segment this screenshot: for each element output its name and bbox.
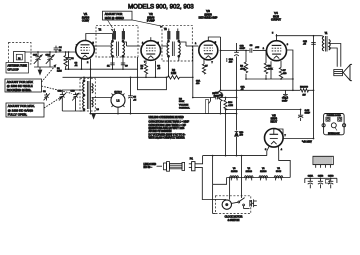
clock capacitor and outlet: [249, 200, 251, 207]
heater bus: [227, 177, 291, 179]
svg-text:.01: .01: [75, 65, 79, 67]
osc coil terminals: [83, 80, 85, 82]
svg-text:C10: C10: [215, 92, 220, 94]
svg-text:RECT: RECT: [271, 120, 278, 123]
svg-text:400: 400: [229, 62, 233, 64]
svg-text:C2: C2: [71, 58, 75, 60]
resistor R8: [300, 89, 308, 92]
svg-text:C15C: C15C: [328, 176, 334, 178]
oscillator coil dashed box: [80, 79, 95, 111]
wire: V5 pin3 drop: [266, 151, 268, 156]
T3 secondary coil: [179, 42, 181, 56]
misc small labels: [33, 54, 245, 111]
svg-text:T2: T2: [99, 30, 102, 32]
svg-text:30: 30: [59, 50, 62, 52]
T3 terminal circles: [168, 40, 170, 42]
svg-text:68: 68: [141, 68, 144, 70]
wire: B+ line y=90.3: [221, 89, 301, 91]
wire: clock feeds: [229, 178, 231, 200]
wire: T2 secondary to V2 grid: [127, 45, 141, 47]
T3 primary coil: [167, 42, 169, 56]
svg-text:T3: T3: [164, 29, 167, 31]
svg-text:C1C: C1C: [46, 55, 51, 57]
wire: osc box to L2: [92, 97, 112, 99]
wire: vertical x=236.5: [236, 43, 238, 52]
svg-text:R14: R14: [228, 102, 233, 104]
svg-text:WITH 20,000 OHM/VOLT METER: WITH 20,000 OHM/VOLT METER: [149, 137, 185, 140]
wire: plate load vertical x=221: [220, 37, 222, 91]
svg-text:R2: R2: [172, 70, 176, 72]
svg-text:C15B: C15B: [318, 176, 324, 178]
svg-text:500K: 500K: [179, 101, 185, 103]
label R5 1MEG: [219, 91, 222, 102]
oscillator gang C1D: [72, 93, 79, 112]
T3 core: [171, 42, 173, 57]
capacitor C8 coupling: [249, 48, 251, 53]
svg-text:1W: 1W: [302, 94, 305, 96]
svg-text:P1: P1: [190, 158, 194, 161]
svg-text:CONV: CONV: [82, 19, 89, 22]
T3 trimmer caps: [167, 31, 170, 40]
tube V4 output: [263, 33, 289, 61]
wire: loop antenna to V1 grid: [25, 51, 76, 53]
clock motor dashed box: [215, 196, 250, 214]
filter caps C7A-B: [284, 90, 286, 94]
IF transformer T2 dashed box: [96, 25, 138, 57]
svg-text:1: 1: [263, 48, 265, 50]
svg-text:C1B: C1B: [58, 90, 63, 92]
wire: volume to V4 grid y=97.5: [193, 97, 216, 99]
T2 primary coil: [111, 42, 113, 56]
svg-text:OF LOOP: OF LOOP: [8, 69, 19, 72]
svg-text:R6: R6: [240, 66, 244, 68]
cap under V2: [155, 61, 157, 78]
svg-text:C9B: C9B: [240, 46, 245, 48]
svg-text:C6A: C6A: [241, 85, 246, 88]
svg-text:DET-AUDIO AMP: DET-AUDIO AMP: [199, 16, 218, 19]
svg-text:150: 150: [283, 73, 287, 75]
adjust 455KC callout box: [103, 11, 133, 20]
svg-text:IF AMP: IF AMP: [147, 19, 155, 22]
svg-text:MAX @ 455KC: MAX @ 455KC: [105, 16, 124, 20]
trimmer C1E: [43, 91, 50, 101]
wire: V4 pin stub: [270, 61, 272, 79]
svg-text:1: 1: [195, 43, 197, 45]
svg-text:CONTROL: CONTROL: [179, 107, 190, 109]
wire: T2 bottom drop x=137.5: [137, 57, 139, 77]
svg-text:C9A: C9A: [229, 58, 234, 61]
wire: V3 plate to R5 rail: [208, 37, 220, 41]
wire: V1 cathode vertical x=90: [90, 59, 92, 114]
svg-text:C7: C7: [205, 65, 209, 67]
svg-text:7: 7: [285, 135, 287, 137]
wire: heater return: [213, 178, 227, 185]
tuning gang C1A: [34, 52, 43, 67]
capacitor C4: [55, 50, 57, 52]
label antenna tune of loop: [6, 63, 29, 74]
T2 secondary coil: [123, 42, 125, 56]
loop antenna L1: [14, 52, 26, 63]
svg-text:C1A: C1A: [33, 54, 38, 57]
svg-text:5: 5: [215, 42, 217, 44]
IF transformer T3 dashed box: [162, 25, 192, 61]
svg-text:V2: V2: [248, 168, 251, 170]
svg-text:C?: C?: [125, 65, 129, 67]
dashed callout long: [42, 86, 73, 94]
wire: gang top to osc coil: [62, 90, 84, 93]
svg-text:L2: L2: [117, 98, 120, 102]
tube socket layout detail: [322, 114, 346, 135]
svg-text:V4: V4: [277, 168, 280, 170]
electrolytic caps C15A B C: [305, 175, 337, 189]
wire: V3 grid return x=192.8: [192, 46, 194, 98]
heater V4: [274, 176, 283, 178]
heater V1: [259, 176, 268, 178]
svg-text:*+B 140V: *+B 140V: [302, 142, 312, 144]
capacitor C10: [215, 96, 217, 100]
resistor R6 470K: [245, 51, 247, 63]
svg-text:C15A: C15A: [308, 175, 314, 178]
svg-text:MODELS 900, 902, 903: MODELS 900, 902, 903: [128, 4, 194, 11]
svg-text:12AU6: 12AU6: [231, 170, 238, 173]
svg-text:V1: V1: [262, 168, 265, 170]
T2 terminal circles: [112, 40, 114, 42]
clock motor: [222, 200, 231, 209]
ground arrow on bus: [91, 114, 96, 120]
resistor R14: [224, 100, 227, 110]
oscillator trimmer C1B: [59, 93, 66, 112]
svg-text:R8 1000: R8 1000: [300, 87, 309, 89]
resistor R9 470K: [265, 51, 267, 64]
svg-text:VOLUME: VOLUME: [179, 104, 189, 106]
T3 bottom stubs: [168, 56, 170, 78]
svg-text:2.2M: 2.2M: [57, 71, 62, 73]
svg-text:5: 5: [93, 43, 95, 45]
wire: plug to AC line: [195, 156, 203, 164]
svg-text:T1: T1: [325, 32, 328, 35]
wire: V4 screen drop x=292.9: [287, 50, 293, 90]
svg-text:5: 5: [272, 33, 274, 35]
tube V2 IF amp: [141, 37, 161, 63]
wire: V5 pin4 to heater bus: [279, 151, 291, 178]
svg-text:12 TO 8: 12 TO 8: [114, 92, 122, 94]
wire: B plus vertical x=313.5: [313, 36, 315, 139]
capacitor C-15: [300, 110, 302, 115]
loop antenna dashed enclosure: [9, 43, 32, 65]
output transformer T1: [322, 32, 331, 52]
label adjust 1500KC box: [5, 79, 42, 92]
speaker: [334, 64, 352, 81]
wire: C8 coupling line to V4 grid: [221, 50, 250, 52]
heater V3: [230, 176, 239, 178]
svg-text:ROCKING GANG.: ROCKING GANG.: [7, 88, 32, 92]
svg-text:2.2M: 2.2M: [171, 73, 176, 75]
capacitor C9B: [234, 51, 239, 53]
ground arrow: [39, 67, 41, 70]
svg-text:R10: R10: [239, 132, 244, 134]
capacitor C2: [68, 52, 70, 58]
notes text block: [149, 116, 190, 139]
svg-text:12BA6: 12BA6: [246, 170, 253, 173]
svg-text:C5: C5: [133, 97, 137, 99]
capacitor C9A: [226, 58, 228, 62]
resistor R2: [168, 76, 180, 80]
svg-text:1MEG: 1MEG: [214, 96, 220, 98]
svg-text:C8: C8: [250, 45, 254, 47]
osc coil windings: [83, 82, 84, 95]
svg-text:INTERLOCK: INTERLOCK: [328, 133, 340, 135]
resistor R1: [65, 52, 67, 56]
svg-text:C1D: C1D: [71, 90, 76, 92]
svg-text:12AD8: 12AD8: [260, 170, 267, 173]
T2 core: [116, 42, 118, 57]
wire: AVC bus y=69.2: [66, 68, 138, 70]
svg-text:1K: 1K: [107, 65, 110, 67]
svg-text:L3: L3: [97, 109, 100, 111]
T2 bottom stubs: [112, 56, 114, 70]
svg-text:80MF: 80MF: [305, 113, 311, 115]
svg-text:FULLY OPEN.: FULLY OPEN.: [8, 113, 27, 117]
svg-text:7: 7: [212, 62, 214, 64]
dashed callout to osc trimmer: [44, 98, 61, 109]
wire: V2 plate to T3: [161, 45, 168, 47]
osc coil L2 circle: [111, 92, 125, 114]
wire: cathode bus y=77.3: [63, 76, 168, 78]
resistor under V2: [145, 60, 147, 64]
wire: cathode bus under V4 y=79: [246, 78, 293, 80]
diode R10: [235, 132, 239, 136]
tube V1 converter: [76, 41, 95, 70]
svg-text:R3: R3: [179, 98, 183, 100]
svg-text:50C5: 50C5: [276, 171, 282, 173]
resistor R7 150: [280, 61, 282, 68]
interlock plug P1: [164, 158, 196, 172]
svg-text:UNLESS OTHERWISE NOTED: UNLESS OTHERWISE NOTED: [149, 116, 184, 119]
volume control R3: [206, 100, 209, 114]
svg-text:4.7M: 4.7M: [228, 105, 233, 107]
T2 trimmer caps: [113, 31, 116, 40]
svg-text:470K: 470K: [268, 68, 273, 70]
tube V3 det audio: [195, 41, 218, 74]
wire: screen line y=109: [226, 109, 301, 111]
dashed arrow to T3: [132, 20, 160, 26]
svg-text:470K: 470K: [240, 68, 245, 70]
svg-text:V3: V3: [233, 168, 236, 170]
heater V2: [244, 176, 253, 178]
clock switch: [232, 202, 239, 203]
wire: T1 secondary to speaker: [331, 44, 341, 67]
svg-text:400: 400: [196, 83, 200, 85]
svg-text:C-15: C-15: [305, 110, 310, 112]
wire: ground bus y=113.6: [90, 113, 237, 115]
wire: V1 plate to T2: [86, 34, 113, 41]
svg-text:50MF: 50MF: [282, 100, 288, 102]
svg-text:R1: R1: [57, 68, 61, 70]
tube V5 rectifier: [265, 129, 287, 152]
wire: vertical x=225.5: [225, 98, 227, 101]
svg-text:2: 2: [87, 62, 89, 64]
svg-text:.005: .005: [255, 47, 260, 49]
svg-text:30MF: 30MF: [240, 48, 246, 50]
svg-text:NO 50 ~: NO 50 ~: [144, 167, 153, 169]
svg-text:.05: .05: [157, 68, 161, 70]
wire: +B line from V5: [283, 138, 314, 140]
svg-text:OUTPUT: OUTPUT: [271, 18, 281, 21]
svg-text:C1: C1: [43, 91, 47, 93]
svg-text:6: 6: [287, 44, 289, 46]
svg-text:C12: C12: [303, 41, 308, 43]
selenium rectifier detail: [313, 156, 333, 168]
wire: V4 plate to T1: [277, 35, 322, 37]
dashed callout to gang: [42, 66, 56, 82]
svg-text:C9A: C9A: [196, 80, 201, 83]
osc bottom wire: [62, 110, 84, 112]
svg-text:470: 470: [239, 135, 243, 137]
tuning gang C1C: [46, 52, 55, 67]
caps under T2: [110, 62, 114, 64]
svg-text:.05: .05: [133, 99, 137, 101]
wire: small loop x=137.5..166.4 y=89.7: [138, 77, 167, 89]
svg-text:4: 4: [281, 149, 283, 151]
gang ground wire: [34, 66, 56, 68]
wire: T3 secondary to V3 grid: [186, 45, 198, 47]
svg-text:.05: .05: [303, 44, 307, 46]
svg-text:R7: R7: [283, 70, 287, 72]
dashed arrow to T2: [108, 20, 113, 28]
capacitor C5: [130, 77, 132, 96]
svg-text:ANTENNA TUNE: ANTENNA TUNE: [8, 65, 28, 68]
label adjust 1620KC box: [6, 103, 44, 117]
svg-text:C7A,B: C7A,B: [282, 97, 289, 100]
svg-text:& SWITCH: & SWITCH: [228, 219, 240, 222]
svg-text:LINE CORD: LINE CORD: [144, 164, 157, 166]
